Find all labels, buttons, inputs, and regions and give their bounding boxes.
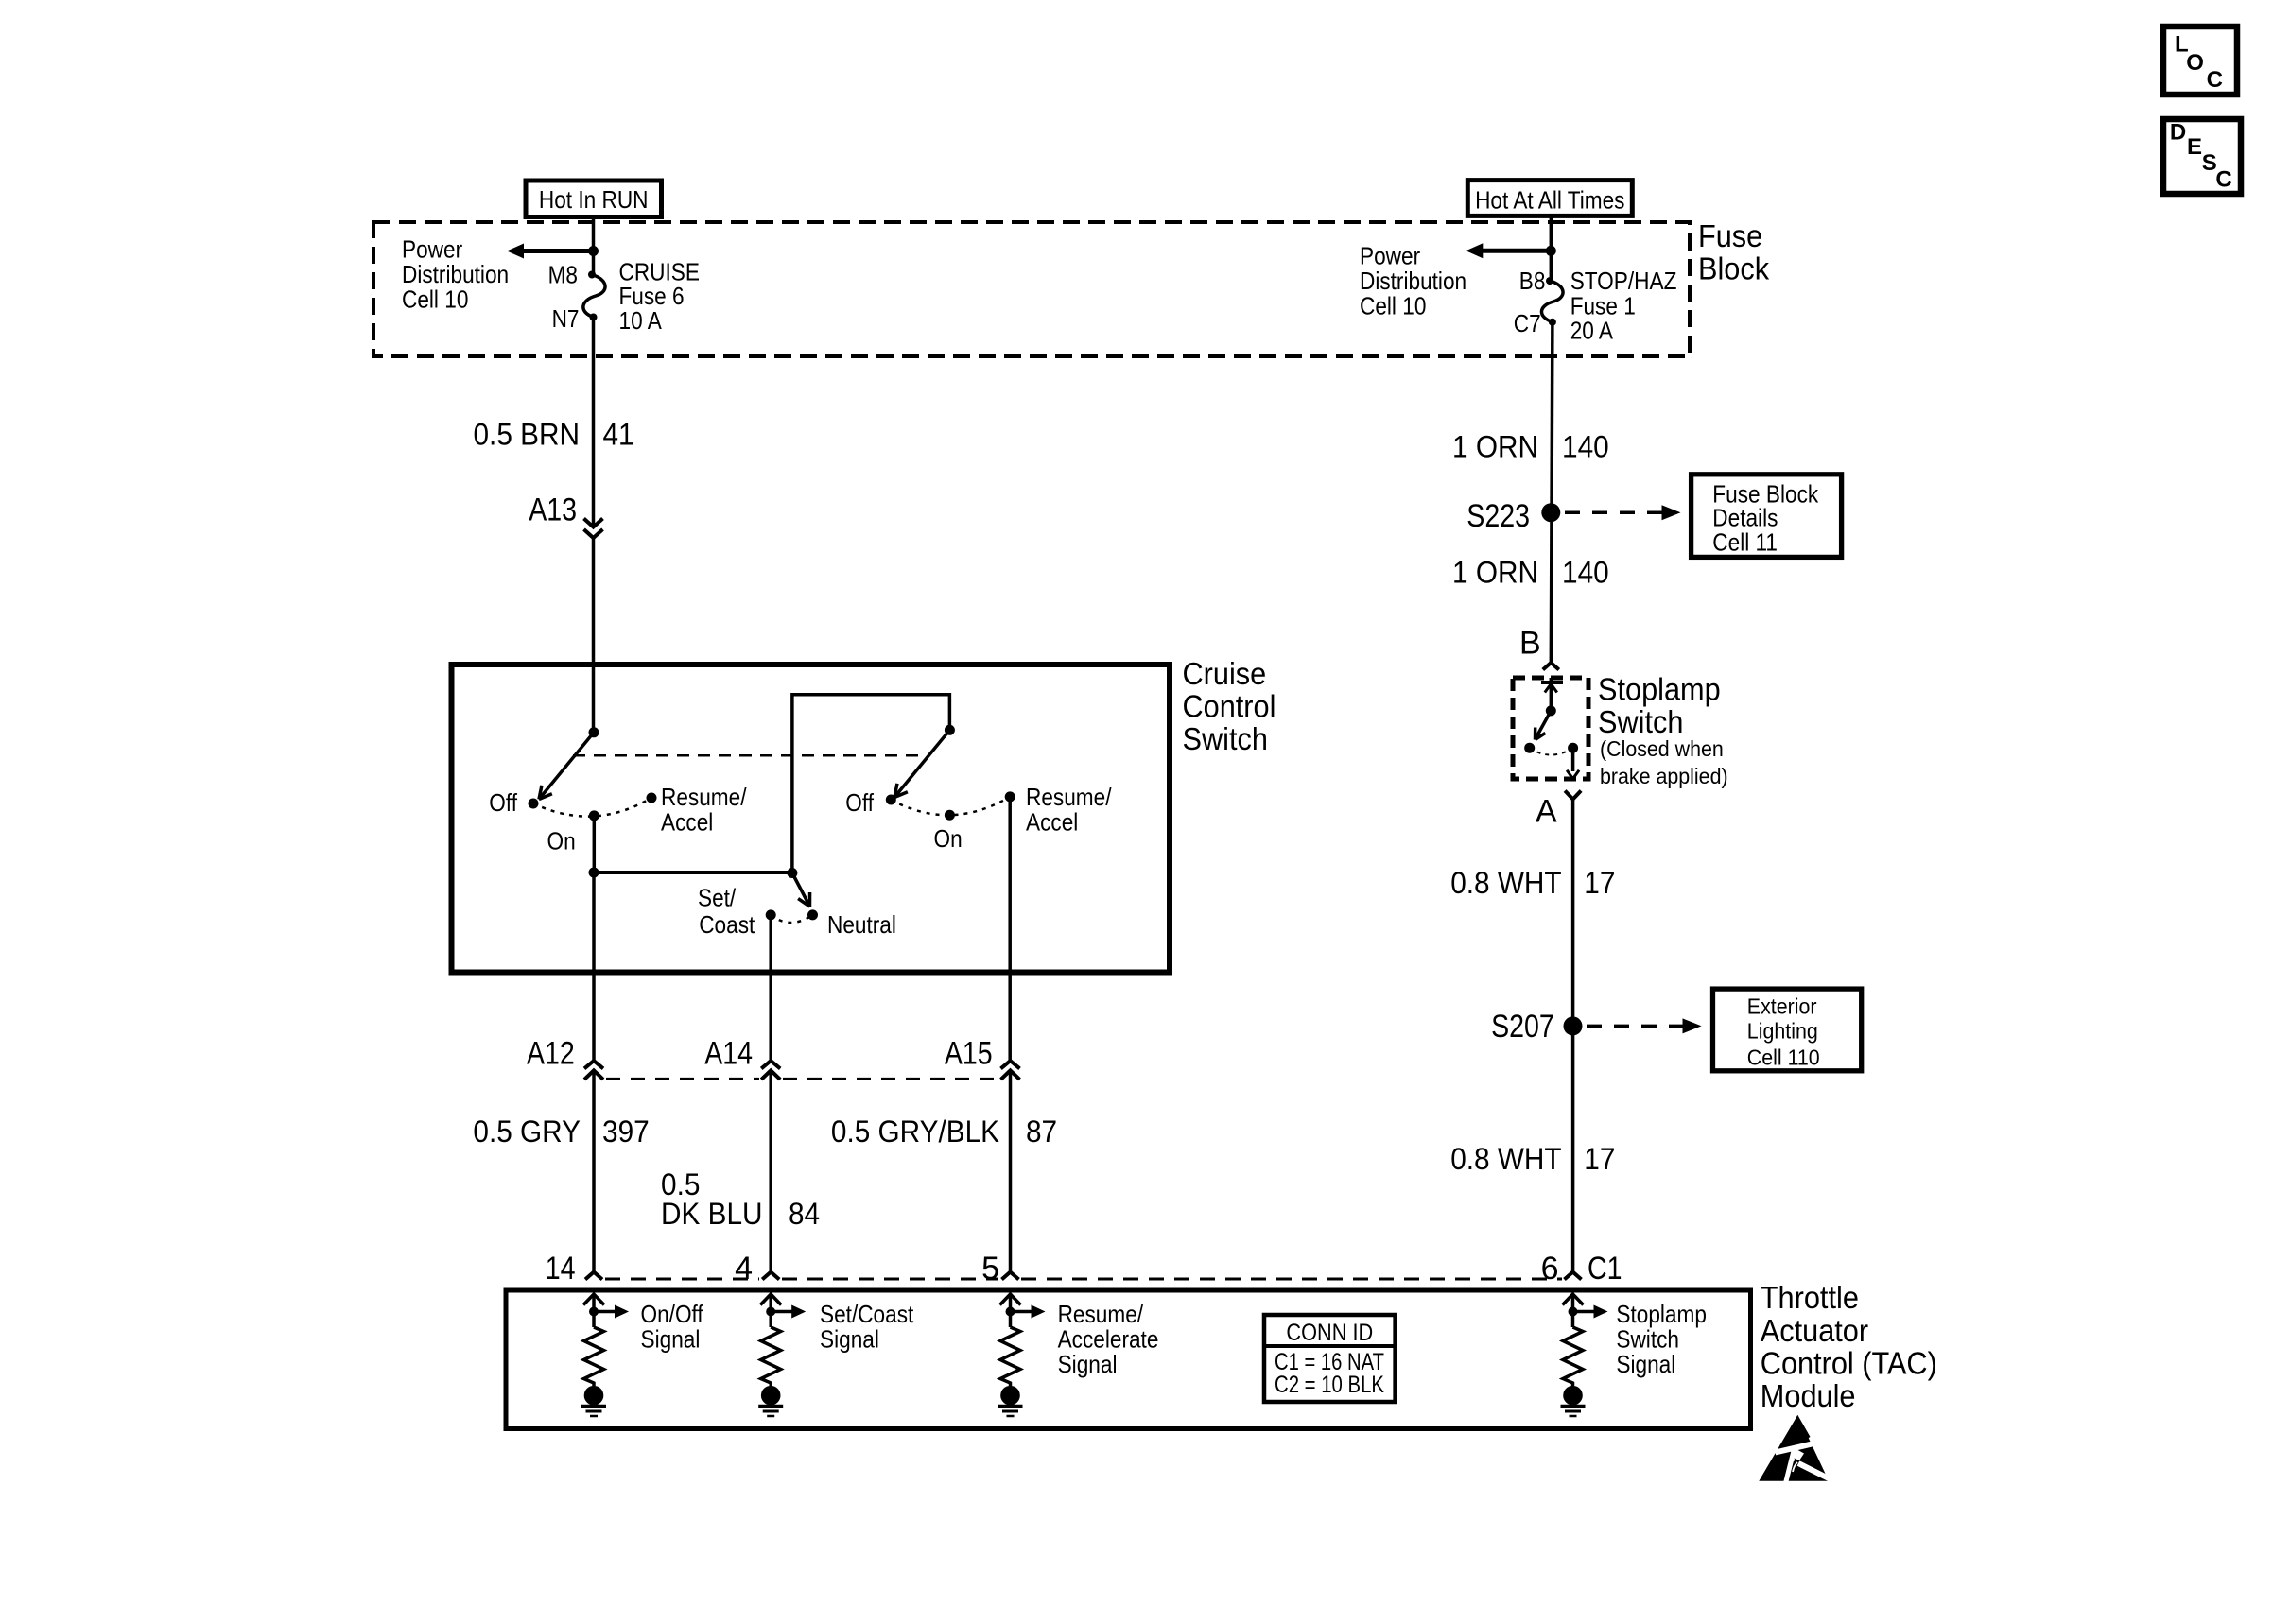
svg-text:D: D: [2170, 119, 2186, 145]
svg-text:Accelerate: Accelerate: [1058, 1325, 1159, 1354]
svg-text:Distribution: Distribution: [1360, 267, 1466, 295]
svg-text:STOP/HAZ: STOP/HAZ: [1570, 267, 1677, 295]
svg-text:Resume/: Resume/: [661, 783, 747, 811]
svg-text:Coast: Coast: [699, 910, 755, 939]
svg-text:Accel: Accel: [661, 808, 713, 837]
svg-text:17: 17: [1584, 1142, 1615, 1176]
svg-text:(Closed when: (Closed when: [1600, 736, 1724, 761]
svg-text:Switch: Switch: [1616, 1325, 1679, 1354]
svg-text:41: 41: [603, 418, 634, 452]
svg-text:Stoplamp: Stoplamp: [1598, 672, 1721, 707]
svg-text:A14: A14: [704, 1035, 753, 1071]
svg-text:Actuator: Actuator: [1761, 1313, 1868, 1348]
svg-text:Cell 11: Cell 11: [1712, 528, 1778, 557]
svg-text:20 A: 20 A: [1570, 317, 1614, 345]
svg-text:C: C: [2207, 67, 2223, 93]
svg-text:A15: A15: [945, 1035, 993, 1071]
svg-text:397: 397: [602, 1114, 650, 1149]
svg-text:Exterior: Exterior: [1747, 993, 1817, 1018]
svg-text:Switch: Switch: [1183, 721, 1268, 756]
svg-text:DK BLU: DK BLU: [661, 1197, 763, 1231]
svg-text:140: 140: [1562, 556, 1609, 590]
svg-text:Distribution: Distribution: [402, 260, 509, 288]
svg-text:B: B: [1519, 626, 1541, 662]
svg-text:0.5 GRY: 0.5 GRY: [473, 1114, 581, 1149]
svg-text:Signal: Signal: [1058, 1350, 1118, 1378]
svg-text:0.5 GRY/BLK: 0.5 GRY/BLK: [831, 1114, 999, 1149]
svg-text:M8: M8: [548, 261, 578, 289]
svg-text:A: A: [1536, 794, 1557, 830]
svg-text:Module: Module: [1761, 1378, 1856, 1413]
svg-text:E: E: [2187, 134, 2202, 160]
svg-text:Off: Off: [845, 788, 874, 817]
svg-text:Lighting: Lighting: [1747, 1019, 1818, 1044]
svg-text:Hot At All Times: Hot At All Times: [1475, 186, 1624, 215]
svg-text:B8: B8: [1519, 267, 1546, 295]
svg-text:S: S: [2202, 150, 2217, 176]
svg-text:Cell 110: Cell 110: [1747, 1045, 1820, 1070]
svg-text:Accel: Accel: [1026, 808, 1078, 837]
svg-text:17: 17: [1584, 866, 1615, 900]
svg-text:Set/Coast: Set/Coast: [820, 1300, 914, 1328]
svg-text:Control: Control: [1183, 689, 1276, 724]
svg-text:A13: A13: [529, 492, 577, 528]
svg-text:14: 14: [546, 1251, 576, 1287]
svg-text:C2 = 10 BLK: C2 = 10 BLK: [1275, 1372, 1384, 1398]
svg-text:Block: Block: [1698, 251, 1770, 286]
svg-text:A12: A12: [527, 1035, 575, 1071]
svg-text:O: O: [2186, 50, 2204, 76]
svg-text:Off: Off: [489, 788, 517, 817]
svg-text:Resume/: Resume/: [1058, 1300, 1144, 1328]
svg-text:Power: Power: [402, 235, 462, 264]
svg-text:140: 140: [1562, 430, 1609, 464]
svg-text:S207: S207: [1491, 1009, 1554, 1045]
svg-text:Cruise: Cruise: [1183, 656, 1267, 691]
svg-text:0.8 WHT: 0.8 WHT: [1450, 1142, 1561, 1176]
svg-text:S223: S223: [1466, 498, 1530, 534]
svg-text:Set/: Set/: [698, 884, 737, 912]
svg-text:4: 4: [735, 1251, 753, 1287]
svg-text:Resume/: Resume/: [1026, 783, 1112, 811]
svg-text:Neutral: Neutral: [827, 910, 896, 939]
svg-text:On: On: [547, 827, 576, 855]
svg-text:C1: C1: [1588, 1251, 1622, 1287]
svg-text:1 ORN: 1 ORN: [1452, 556, 1538, 590]
svg-text:Stoplamp: Stoplamp: [1616, 1300, 1707, 1328]
svg-text:Throttle: Throttle: [1761, 1280, 1859, 1315]
svg-text:Switch: Switch: [1598, 704, 1683, 739]
svg-text:Power: Power: [1360, 242, 1420, 270]
svg-text:On: On: [934, 824, 963, 853]
svg-text:87: 87: [1026, 1114, 1057, 1149]
svg-text:0.8 WHT: 0.8 WHT: [1450, 866, 1561, 900]
svg-text:6: 6: [1541, 1251, 1559, 1287]
svg-text:C7: C7: [1514, 309, 1541, 337]
svg-text:1 ORN: 1 ORN: [1452, 430, 1538, 464]
svg-text:On/Off: On/Off: [641, 1300, 704, 1328]
svg-text:C: C: [2215, 166, 2231, 192]
svg-text:5: 5: [981, 1251, 999, 1287]
svg-text:0.5 BRN: 0.5 BRN: [474, 418, 581, 452]
svg-text:N7: N7: [552, 304, 580, 333]
svg-text:Fuse: Fuse: [1698, 218, 1762, 253]
svg-text:Hot In RUN: Hot In RUN: [539, 185, 649, 214]
svg-text:Signal: Signal: [1616, 1350, 1675, 1378]
svg-text:Signal: Signal: [641, 1325, 701, 1354]
svg-text:CONN ID: CONN ID: [1286, 1320, 1373, 1346]
svg-text:Cell 10: Cell 10: [402, 285, 468, 314]
svg-text:Signal: Signal: [820, 1325, 879, 1354]
svg-text:brake applied): brake applied): [1600, 764, 1728, 788]
svg-text:84: 84: [789, 1197, 820, 1231]
svg-text:Cell 10: Cell 10: [1360, 292, 1426, 320]
svg-text:Control (TAC): Control (TAC): [1761, 1345, 1937, 1380]
svg-text:10 A: 10 A: [619, 306, 663, 335]
